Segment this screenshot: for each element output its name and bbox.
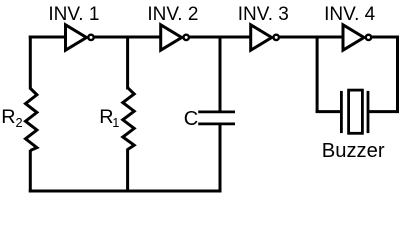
wire R1 bottom to rail [126, 149, 129, 193]
buzzer left plate [340, 91, 343, 133]
wire buzzer right vertical [396, 36, 399, 114]
svg-text:INV. 3: INV. 3 [238, 4, 289, 25]
wire buzzer left vertical [316, 36, 319, 114]
wire INV2 output to INV3 input [188, 36, 253, 39]
svg-text:2: 2 [16, 115, 23, 130]
wire C bottom to rail [219, 124, 222, 193]
inverter U4 bubble [366, 35, 371, 40]
buzzer crystal body [349, 90, 363, 133]
capacitor C top plate [198, 111, 235, 114]
wire R2 bottom to ground rail [29, 150, 32, 193]
inverter U3 triangle [251, 25, 272, 50]
resistor R2 [26, 89, 37, 151]
svg-text:INV. 1: INV. 1 [48, 4, 99, 25]
resistor R1 [123, 88, 134, 150]
inverter U2 bubble [184, 35, 189, 40]
svg-text:R: R [1, 106, 15, 128]
buzzer right plate [367, 91, 370, 133]
wire input segment to INV. 1 [29, 36, 67, 39]
wire left vertical upper (node A to R2 top) [29, 36, 32, 90]
capacitor C bottom plate [198, 123, 235, 126]
wire R1 top vertical [126, 36, 129, 90]
svg-text:INV. 4: INV. 4 [324, 4, 375, 25]
inverter U1 bubble [88, 35, 93, 40]
svg-text:INV. 2: INV. 2 [147, 4, 198, 25]
inverter U4 triangle [343, 25, 364, 50]
op-amp inverter U1 triangle [66, 25, 87, 50]
wire buzzer left horizontal [316, 110, 341, 113]
inverter U3 bubble [274, 35, 279, 40]
wire buzzer right horizontal [369, 110, 399, 113]
wire C top vertical [219, 36, 222, 113]
wire bottom rail [29, 190, 222, 193]
svg-text:Buzzer: Buzzer [322, 140, 385, 162]
svg-text:C: C [184, 108, 198, 130]
wire INV1 output to INV2 input [92, 36, 163, 39]
wire INV3 output to INV4 input [278, 36, 345, 39]
wire INV4 output [372, 36, 399, 39]
inverter U2 triangle [161, 25, 182, 50]
svg-text:1: 1 [112, 115, 119, 130]
